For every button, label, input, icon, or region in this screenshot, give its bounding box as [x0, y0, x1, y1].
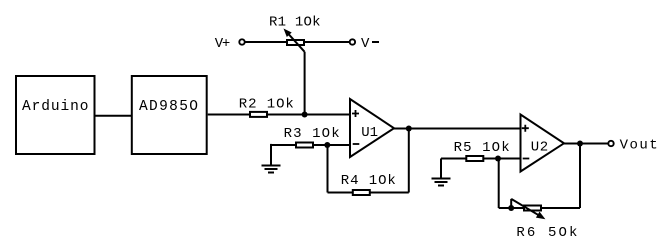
svg-text:V+: V+ — [215, 36, 231, 52]
svg-text:U1: U1 — [361, 125, 378, 141]
svg-text:V: V — [361, 36, 370, 52]
svg-text:R4 1Ok: R4 1Ok — [341, 173, 396, 189]
svg-text:R2 1Ok: R2 1Ok — [239, 97, 294, 113]
svg-text:R5 1Ok: R5 1Ok — [454, 140, 510, 156]
svg-text:R1 1Ok: R1 1Ok — [269, 14, 321, 30]
svg-text:Vout: Vout — [620, 138, 658, 154]
svg-text:R3 1Ok: R3 1Ok — [284, 126, 340, 142]
svg-text:Arduino: Arduino — [22, 99, 89, 115]
svg-text:U2: U2 — [531, 140, 548, 156]
